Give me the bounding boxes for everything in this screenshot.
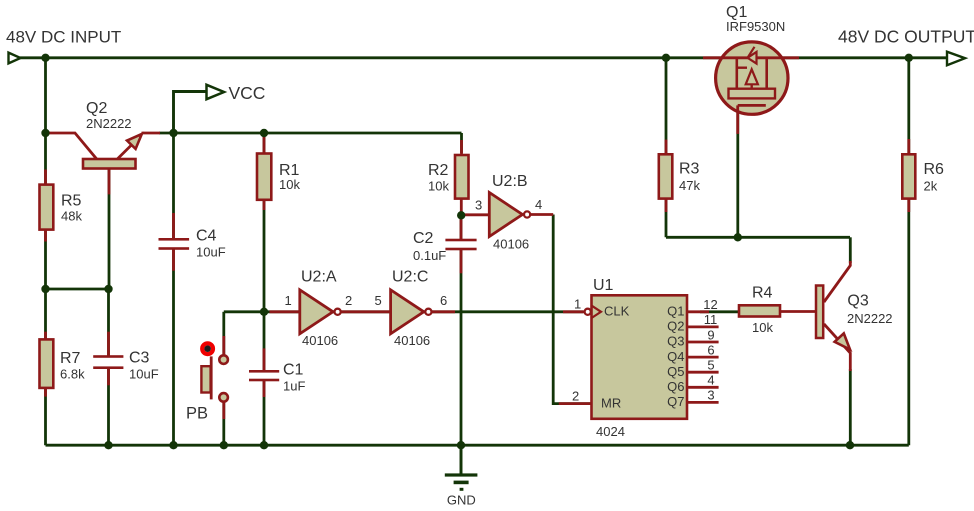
- resistor R4 leads: [780, 310, 815, 313]
- node 48V DC OUTPUT terminal arrow: [947, 52, 965, 65]
- IC U1 pin Q3 lead: [687, 341, 719, 344]
- resistor R7: [40, 339, 86, 388]
- IC U1 MR input lead: [559, 402, 592, 405]
- inverter U2:A: [285, 269, 353, 349]
- IC U1 pin Q2 lead: [687, 325, 719, 328]
- wire PB top: [222, 312, 225, 356]
- wire U2:B output to MR: [553, 215, 592, 404]
- wire Q2 base vertical: [108, 168, 111, 289]
- transistor Q3: [816, 286, 893, 350]
- svg-text:C1: C1: [283, 362, 304, 379]
- svg-text:40106: 40106: [394, 333, 430, 348]
- svg-text:4: 4: [535, 197, 542, 212]
- svg-text:2N2222: 2N2222: [86, 116, 132, 131]
- svg-text:48V DC OUTPUT: 48V DC OUTPUT: [838, 27, 974, 47]
- svg-text:9: 9: [707, 327, 714, 342]
- wire C3 vertical: [107, 289, 110, 357]
- svg-text:R7: R7: [60, 350, 81, 367]
- junction top rail at R3: [662, 54, 670, 62]
- svg-text:Q3: Q3: [667, 334, 684, 349]
- svg-text:2N2222: 2N2222: [847, 311, 893, 326]
- IC U1 pin Q7 lead: [687, 401, 719, 404]
- svg-text:Q2: Q2: [86, 100, 107, 117]
- capacitor C4: [159, 228, 226, 260]
- svg-text:48k: 48k: [61, 209, 82, 224]
- junction R2 bottom / C2 / U2:B input: [457, 211, 465, 219]
- svg-text:Q6: Q6: [667, 379, 684, 394]
- transistor Q2: [83, 100, 142, 169]
- junction R1 bottom / C1: [260, 308, 268, 316]
- inverter U2:B output lead: [531, 213, 554, 216]
- inverter U2:A input lead: [270, 310, 301, 313]
- junction R1 top: [260, 129, 268, 137]
- capacitor C2: [413, 230, 477, 263]
- svg-text:CLK: CLK: [604, 304, 630, 319]
- svg-text:4024: 4024: [596, 424, 625, 439]
- junction bottom rail at Q3: [846, 441, 854, 449]
- svg-text:U2:B: U2:B: [492, 173, 528, 190]
- resistor R2 leads: [460, 140, 463, 156]
- svg-text:1: 1: [285, 293, 292, 308]
- wire PB bottom: [222, 402, 225, 446]
- junction top rail at left column: [41, 54, 49, 62]
- svg-text:40106: 40106: [493, 237, 529, 252]
- transistor Q2 base lead: [108, 168, 111, 194]
- wire Q3 emitter vertical: [849, 369, 852, 445]
- junction Q2 collector: [41, 129, 49, 137]
- svg-text:R5: R5: [61, 193, 82, 210]
- IC U1 CLK input lead: [563, 310, 585, 313]
- capacitor C1 leads: [263, 348, 266, 371]
- transistor Q1 IRF9530N mosfet: [703, 4, 799, 134]
- transistor Q3 emitter lead: [824, 324, 850, 371]
- resistor R6 leads: [907, 139, 910, 157]
- svg-text:C3: C3: [129, 350, 150, 367]
- resistor R1: [257, 154, 300, 200]
- svg-text:R4: R4: [752, 285, 773, 302]
- svg-text:10k: 10k: [279, 177, 300, 192]
- IC U1 pin Q4 lead: [687, 356, 719, 359]
- IC U1 4024 counter: [585, 277, 687, 439]
- transistor Q3 collector lead: [824, 261, 850, 302]
- svg-text:2: 2: [572, 389, 579, 404]
- svg-text:10k: 10k: [752, 320, 773, 335]
- svg-text:10uF: 10uF: [129, 367, 159, 382]
- junction bottom rail at C4: [169, 441, 177, 449]
- wire R3 vertical: [665, 58, 668, 238]
- junction bottom rail at PB: [220, 441, 228, 449]
- svg-text:IRF9530N: IRF9530N: [726, 19, 785, 34]
- resistor R3 leads: [665, 140, 668, 157]
- capacitor C2 leads: [460, 215, 463, 240]
- wire R5-C3 row: [46, 288, 109, 291]
- junction R5 bottom: [41, 285, 49, 293]
- svg-text:5: 5: [375, 293, 382, 308]
- junction Q2 emitter / VCC: [169, 129, 177, 137]
- svg-text:C4: C4: [196, 228, 217, 245]
- resistor R1 leads: [263, 135, 266, 155]
- svg-text:4: 4: [707, 373, 714, 388]
- svg-text:6: 6: [707, 342, 714, 357]
- junction Q1 gate on R3 row: [734, 233, 742, 241]
- inverter U2:B: [475, 173, 542, 252]
- svg-text:40106: 40106: [302, 333, 338, 348]
- resistor R4: [739, 285, 780, 336]
- wire C2/GND vertical: [460, 215, 463, 240]
- resistor R2: [428, 155, 469, 199]
- wire top rail: [20, 56, 948, 59]
- wire R2 top vertical: [460, 133, 463, 153]
- inverter U2:C: [375, 269, 448, 349]
- capacitor C3 leads: [107, 332, 110, 357]
- wire bottom rail: [46, 444, 909, 447]
- svg-text:VCC: VCC: [229, 83, 266, 103]
- svg-text:MR: MR: [601, 396, 621, 411]
- svg-text:Q7: Q7: [667, 394, 684, 409]
- svg-text:R6: R6: [924, 161, 945, 178]
- wire left vertical (input to R5/R7 column): [44, 58, 47, 445]
- resistor R3: [659, 154, 701, 198]
- junction top rail at R6: [905, 54, 913, 62]
- IC U1 pin Q5 lead: [687, 371, 719, 374]
- capacitor C3: [93, 350, 158, 382]
- svg-text:R3: R3: [679, 161, 700, 178]
- svg-text:U2:A: U2:A: [301, 269, 337, 286]
- resistor R6: [902, 154, 944, 198]
- junction bottom rail at GND: [457, 441, 465, 449]
- svg-text:R2: R2: [428, 162, 449, 179]
- push button PB leads: [222, 336, 225, 357]
- wire VCC row y=133: [159, 132, 462, 135]
- capacitor C1: [249, 362, 305, 394]
- wire C1 vertical: [263, 312, 266, 372]
- capacitor C4 leads: [172, 213, 175, 239]
- wire R1 vertical: [263, 133, 266, 312]
- svg-text:PB: PB: [186, 405, 208, 423]
- svg-text:3: 3: [475, 198, 482, 213]
- svg-text:Q3: Q3: [847, 293, 868, 310]
- inverter U2:B input lead: [461, 213, 490, 216]
- svg-text:10uF: 10uF: [196, 245, 226, 260]
- junction bottom rail at C1: [260, 441, 268, 449]
- svg-text:Q1: Q1: [667, 304, 684, 319]
- IC U1 pin Q6 lead: [687, 386, 719, 389]
- svg-text:Q5: Q5: [667, 364, 684, 379]
- svg-text:1: 1: [574, 297, 581, 312]
- junction bottom rail at C3: [104, 441, 112, 449]
- svg-text:1uF: 1uF: [283, 379, 305, 394]
- wire R6 vertical: [907, 58, 910, 445]
- svg-text:GND: GND: [447, 493, 476, 508]
- svg-text:5: 5: [707, 358, 714, 373]
- wire U1 Q1 output to R4: [700, 310, 740, 313]
- transistor Q2 collector lead: [48, 133, 97, 159]
- svg-text:48V DC INPUT: 48V DC INPUT: [6, 28, 121, 47]
- svg-text:6: 6: [440, 293, 447, 308]
- svg-text:Q2: Q2: [667, 319, 684, 334]
- resistor R5 leads: [44, 170, 47, 187]
- svg-text:3: 3: [707, 388, 714, 403]
- push button PB: [186, 343, 228, 422]
- transistor Q2 emitter lead: [118, 140, 137, 159]
- node VCC arrow: [207, 85, 225, 99]
- junction Q2 base / C3: [104, 285, 112, 293]
- resistor R7 leads: [44, 332, 47, 341]
- svg-text:Q4: Q4: [667, 349, 684, 364]
- svg-text:12: 12: [703, 297, 717, 312]
- svg-text:10k: 10k: [428, 179, 449, 194]
- resistor R5: [40, 185, 83, 230]
- svg-text:47k: 47k: [679, 178, 700, 193]
- svg-text:0.1uF: 0.1uF: [413, 248, 446, 263]
- wire C4 vertical: [172, 133, 175, 238]
- svg-text:6.8k: 6.8k: [60, 367, 85, 382]
- svg-text:C2: C2: [413, 230, 434, 247]
- wire VCC branch: [174, 92, 208, 134]
- ground: [445, 445, 478, 507]
- wire oscillator signal row: [224, 310, 583, 313]
- svg-text:2k: 2k: [924, 179, 938, 194]
- svg-text:2: 2: [345, 293, 352, 308]
- svg-text:11: 11: [704, 312, 718, 327]
- wire Q1 gate vertical: [736, 110, 739, 237]
- svg-text:U1: U1: [593, 277, 614, 294]
- inverter U2:C output lead: [432, 310, 455, 313]
- wire R3 to Q3 collector row: [666, 236, 850, 239]
- IC U1 pin Q1 lead: [687, 310, 709, 313]
- inverter U2:A output lead: [341, 310, 390, 313]
- node 48V DC INPUT terminal arrow: [9, 53, 21, 64]
- wire Q3 collector vertical: [849, 237, 852, 263]
- svg-text:U2:C: U2:C: [392, 269, 428, 286]
